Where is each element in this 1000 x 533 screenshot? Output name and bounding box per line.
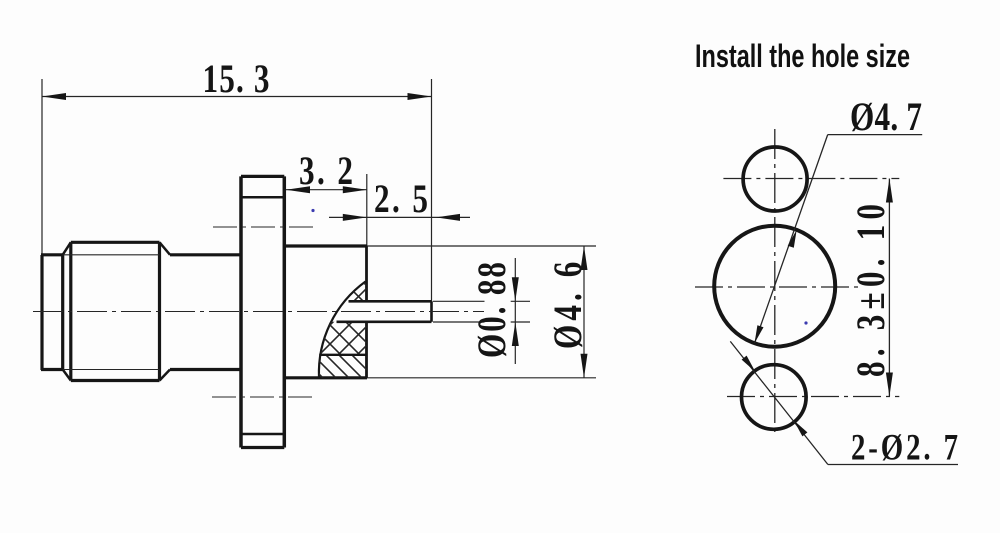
2.5 dim line [329, 216, 470, 218]
Ø0.88 ext tick bottom [511, 321, 530, 323]
Ø4.6 bottom arrow [581, 354, 588, 378]
thread chamfer bottom-right [160, 370, 171, 381]
svg-text:Install the hole size: Install the hole size [695, 38, 910, 74]
rear body bottom edge [284, 376, 367, 379]
middle hole centerline [695, 286, 858, 288]
thread chamfer top-left [63, 242, 71, 255]
center pin bottom edge [337, 320, 432, 323]
flange left edge [239, 176, 243, 447]
svg-text:Ø4. 6: Ø4. 6 [545, 262, 590, 349]
middle barrel bottom edge [170, 368, 241, 371]
flange right edge [283, 176, 287, 447]
Ø4.7 arrow lower (inside circle pointing out) [755, 325, 764, 343]
3.2 left arrow [286, 186, 310, 193]
8.3 bottom arrow [886, 373, 893, 397]
center hole circle [714, 226, 835, 347]
Ø4.6 dim line [583, 246, 585, 378]
rear body right edge lower [365, 322, 368, 378]
thread start face [61, 255, 64, 370]
top mounting hole centerline [213, 226, 313, 228]
8.3 top arrow [886, 179, 893, 203]
thread crest left end [69, 242, 72, 380]
bottom mounting hole circle [742, 365, 807, 430]
center pin top edge [349, 300, 432, 303]
3.2 dim line [286, 189, 367, 191]
rear body top edge [284, 244, 367, 247]
Ø4.7 leader horizontal [828, 134, 923, 136]
Ø4.6 top arrow [581, 246, 588, 270]
Ø0.88 top arrow [512, 277, 519, 301]
Ø0.88 ext tick top [511, 300, 530, 302]
front collar bottom edge [41, 368, 63, 371]
15.3 dim line [42, 96, 432, 98]
bottom hole centerline / 8.3 bottom ext [727, 396, 899, 398]
15.3 / 2.5 right ext line [431, 79, 433, 302]
Ø4.7 leader diagonal [755, 135, 828, 344]
Ø0.88 ext line top [433, 300, 485, 302]
thread root line bottom [63, 369, 160, 371]
2-Ø2.7 arrow lower (outside pointing at circle) [794, 420, 808, 436]
front collar top edge [41, 253, 63, 256]
2-Ø2.7 leader horizontal [828, 464, 958, 466]
bottom mounting hole centerline [212, 396, 313, 398]
15.3 left ext line [41, 79, 43, 256]
svg-text:15. 3: 15. 3 [202, 56, 269, 101]
middle barrel top edge [170, 253, 241, 256]
insulator single-hatch lower band [140, 260, 514, 400]
Ø4.7 arrow upper (inside circle pointing out) [788, 230, 797, 248]
blue speck artifact 1 [311, 209, 314, 212]
top mounting hole circle [743, 147, 807, 211]
2-Ø2.7 arrow upper (outside pointing at circle) [742, 356, 756, 372]
thread root line top [63, 254, 160, 256]
center pin end face [430, 301, 433, 322]
2.5 left arrow (outside, pointing right) [343, 214, 367, 221]
connector left end face [40, 255, 43, 370]
svg-text:Ø4. 7: Ø4. 7 [850, 94, 922, 139]
15.3 right arrow [408, 93, 432, 100]
2-Ø2.7 leader diagonal [730, 341, 828, 464]
thread end face [158, 242, 161, 380]
blue speck artifact 2 [804, 321, 807, 324]
Ø0.88 bottom arrow [512, 322, 519, 346]
Ø0.88 ext line bottom [433, 321, 485, 323]
svg-text:Ø0. 88: Ø0. 88 [469, 262, 514, 358]
Ø4.6 ext line bottom [367, 377, 596, 379]
thread chamfer top-right [160, 242, 171, 255]
2.5 right arrow (outside, pointing left) [436, 214, 460, 221]
flange top chamfer line [241, 196, 284, 199]
3.2 ext line [366, 174, 368, 246]
8.3 dim line [888, 179, 890, 397]
vertical centerline of holes [774, 129, 776, 437]
flange bottom chamfer line [241, 433, 284, 436]
top hole centerline / 8.3 top ext [723, 178, 899, 180]
insulator cross-hatch upper band [160, 260, 547, 400]
3.2 right arrow [343, 186, 367, 193]
15.3 left arrow [42, 93, 66, 100]
Ø4.6 ext line top [367, 245, 596, 247]
insulator divider line [319, 354, 366, 356]
thread crest bottom edge [71, 379, 160, 382]
rear body right edge upper [365, 246, 368, 301]
thread crest top edge [71, 241, 160, 244]
Ø0.88 dim line [514, 258, 516, 364]
main centerline [33, 311, 484, 313]
insulator arc boundary [319, 282, 366, 378]
thread chamfer bottom-left [63, 370, 71, 381]
flange bottom edge [241, 446, 284, 449]
flange top edge [241, 175, 284, 178]
